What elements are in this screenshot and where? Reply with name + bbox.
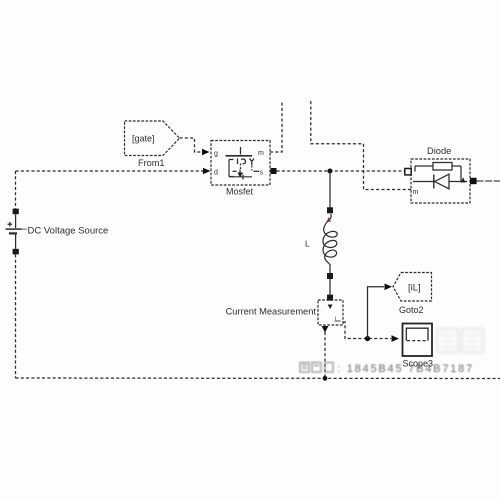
diode internal symbol (413, 163, 467, 189)
DC voltage source block (6, 209, 28, 255)
scope block Scope3 (403, 324, 433, 357)
mosfet output port square (271, 168, 277, 174)
pin label m (diode) (413, 189, 419, 196)
label Current Measurement (226, 307, 317, 317)
svg-text:m: m (413, 189, 419, 196)
label Diode (427, 146, 451, 156)
label Mosfet (226, 187, 254, 197)
pin label g (214, 151, 218, 158)
svg-text:Current Measurement: Current Measurement (226, 307, 317, 317)
svg-text:Goto2: Goto2 (399, 305, 424, 315)
label [iL] (408, 283, 421, 294)
wire Mosfet output to Diode anode (277, 170, 405, 172)
svg-text:L: L (305, 239, 310, 249)
node junction Mosfet output / inductor branch (328, 169, 333, 174)
svg-text:s: s (260, 170, 264, 177)
svg-text:[gate]: [gate] (132, 134, 155, 144)
svg-text:DC Voltage Source: DC Voltage Source (28, 226, 109, 237)
node junction bottom rail / current measurement return (323, 376, 328, 381)
watermark gray text bottom (300, 363, 474, 376)
inductor L coil (323, 214, 337, 265)
unconnected port arrow mark below inductor top port (326, 217, 331, 222)
label DC Voltage Source (28, 226, 109, 237)
wire from From1 tag to Mosfet g input (180, 138, 202, 152)
inductor L port square bottom (327, 273, 333, 279)
node junction scope wire / goto branch (365, 336, 370, 341)
label [gate] (132, 134, 155, 144)
wire Diode m measurement output (unconnected, routed up-left) (311, 101, 411, 190)
pin label m (258, 150, 264, 157)
wire left rail upper segment (15, 171, 17, 209)
watermark light blob right (437, 329, 483, 352)
wire inductor bottom to Current Measurement (329, 264, 331, 295)
wire arrowhead into Mosfet d input (203, 168, 211, 175)
wire arrowhead into Scope3 (392, 335, 400, 342)
pin label d (214, 170, 218, 177)
label Scope3 (403, 359, 434, 369)
wire inductor top connection (329, 171, 331, 208)
wire main top rail from DC source to Mosfet d input (16, 170, 205, 172)
from tag From1 (125, 121, 180, 156)
svg-text:Diode: Diode (427, 146, 451, 156)
wire arrowhead into Mosfet g input (202, 149, 210, 156)
svg-text:g: g (214, 151, 218, 158)
wire arrowhead below Current Measurement (322, 326, 329, 333)
current measurement + mark (328, 305, 333, 310)
wire Current Measurement i output to Scope3 (343, 322, 391, 339)
label Goto2 (399, 305, 424, 315)
label From1 (138, 158, 165, 168)
wire branch up to Goto2 (368, 287, 385, 339)
svg-text:i: i (335, 316, 336, 322)
diode D1 block outline (411, 159, 470, 203)
pin label s (260, 170, 264, 177)
wire left rail lower segment (15, 254, 17, 378)
current measurement i mark (335, 316, 341, 322)
label L (305, 239, 310, 249)
svg-text:m: m (258, 150, 264, 157)
current measurement input port square (327, 295, 333, 301)
svg-text:From1: From1 (138, 158, 165, 168)
wire Diode cathode output to right edge (477, 180, 500, 182)
svg-text:: 1845B45 7B4B7187: : 1845B45 7B4B7187 (337, 363, 474, 375)
wire bottom rail (16, 377, 500, 380)
inductor L port square top (327, 207, 333, 213)
wire arrowhead into Goto2 (385, 284, 393, 291)
wire Current Measurement negative terminal down to bottom rail (324, 332, 326, 378)
svg-text:Mosfet: Mosfet (226, 187, 254, 197)
mosfet U1 block outline (211, 141, 270, 186)
current measurement block outline (318, 300, 343, 325)
goto tag Goto2 (393, 273, 432, 302)
wire Mosfet m measurement output (unconnected, up) (270, 101, 282, 152)
svg-text:[iL]: [iL] (408, 283, 421, 294)
svg-text:d: d (214, 170, 218, 177)
diode cathode output port square (470, 178, 477, 184)
mosfet internal symbol (226, 147, 260, 180)
diode anode input port square (405, 169, 411, 175)
